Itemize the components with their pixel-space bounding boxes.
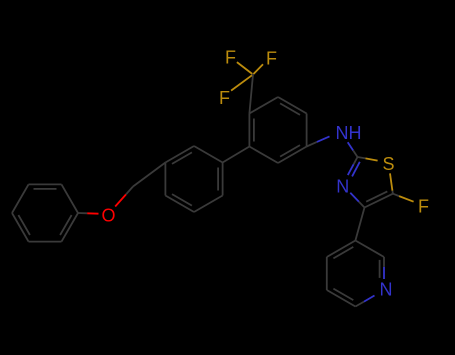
pyridine inner double bonds: [333, 289, 353, 301]
bond thiazole C4 - pyridine: [355, 208, 364, 241]
svg-text:N: N: [336, 177, 349, 197]
svg-text:N: N: [380, 280, 393, 300]
bond C-F3: [252, 74, 253, 77]
bond ring P - O (ether): [78, 212, 87, 214]
bond C-F1: [251, 73, 254, 76]
benzene ring A (CF3/NH phenyl): [278, 97, 307, 114]
bond N(H) - thiazole C2: [353, 150, 357, 157]
bond pyridine N - C (to bottom vertex): [355, 302, 364, 307]
bond pyridine C=N (right edge): [383, 257, 385, 267]
bond S1 - C5: [391, 191, 394, 194]
ring P inner double bonds: [34, 188, 57, 190]
double bond C4=C5: [365, 194, 393, 208]
bond C-F2: [252, 73, 255, 76]
bond ring A - N(H): [307, 142, 317, 147]
svg-text:S: S: [382, 154, 394, 174]
pyridine ring edges: [355, 241, 384, 258]
svg-text:F: F: [266, 49, 277, 69]
bond CH2 - ring B: [133, 163, 165, 187]
pyridine C=N inner line: [379, 260, 381, 278]
svg-text:F: F: [225, 48, 236, 68]
bond C2 - S1: [358, 157, 366, 158]
bond ring A - ring B (biphenyl link): [223, 147, 250, 163]
bond ring A - CF3 carbon: [249, 75, 253, 114]
svg-text:O: O: [101, 206, 115, 226]
double bond C2=N3 inner line: [352, 162, 360, 177]
ring A inner double bonds: [280, 103, 300, 115]
double bond C2=N3: [354, 157, 358, 164]
svg-text:F: F: [219, 88, 230, 108]
benzene ring P (phenoxy phenyl): [62, 213, 79, 242]
bond O - CH2: [126, 187, 133, 195]
benzene ring B (biphenyl left ring): [194, 146, 223, 163]
bond C5 - F4: [393, 194, 399, 196]
svg-text:F: F: [418, 197, 429, 217]
svg-text:NH: NH: [336, 123, 362, 143]
bond N3 - C4: [359, 202, 365, 208]
ring B inner double bonds: [217, 168, 219, 191]
